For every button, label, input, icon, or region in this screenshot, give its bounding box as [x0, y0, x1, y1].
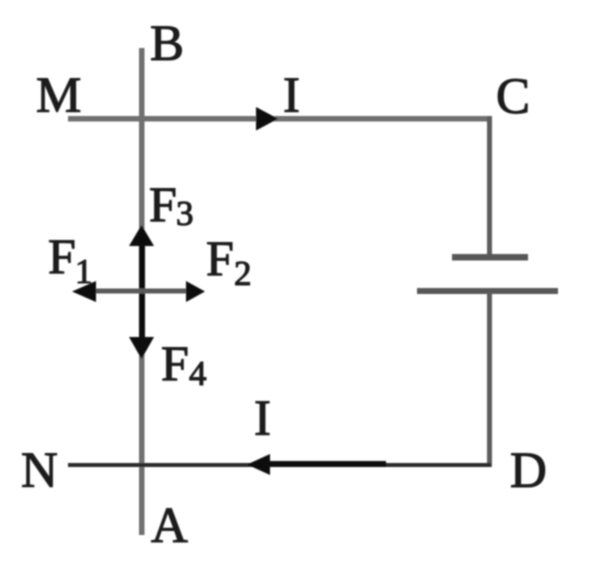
- svg-text:1: 1: [75, 252, 93, 291]
- svg-text:N: N: [21, 443, 58, 499]
- svg-text:F: F: [161, 335, 189, 391]
- node label D: [510, 443, 547, 499]
- node label A: [151, 498, 188, 554]
- battery plate short (top): [452, 254, 528, 261]
- svg-text:C: C: [496, 69, 530, 125]
- current label I (top): [283, 68, 300, 124]
- svg-text:2: 2: [234, 254, 252, 293]
- node label M: [36, 68, 81, 124]
- force arrow F4 (down): [129, 291, 154, 359]
- current label I (bottom): [254, 391, 271, 447]
- force label F3: [149, 176, 194, 233]
- svg-text:B: B: [150, 16, 184, 72]
- svg-text:F: F: [48, 228, 76, 284]
- wire AB (vertical conductor): [139, 48, 145, 535]
- node label B: [150, 16, 184, 72]
- svg-text:D: D: [510, 443, 547, 499]
- svg-text:I: I: [283, 68, 300, 124]
- node label N: [21, 443, 58, 499]
- svg-text:F: F: [149, 176, 177, 232]
- battery plate long (bottom): [417, 288, 558, 294]
- wire C to battery (right upper): [487, 116, 492, 257]
- force arrow F3 (up): [129, 225, 154, 293]
- svg-text:F: F: [206, 230, 234, 286]
- current arrow I (bottom): [247, 454, 386, 475]
- svg-text:I: I: [254, 391, 271, 447]
- svg-text:M: M: [36, 68, 81, 124]
- force label F4: [161, 335, 207, 393]
- svg-text:3: 3: [176, 194, 194, 233]
- force arrow F2 (right): [142, 281, 205, 302]
- force label F1: [48, 228, 93, 291]
- wire M-C (top): [68, 116, 492, 122]
- wire N-D (bottom): [68, 463, 491, 467]
- wire battery to D (right lower): [487, 292, 492, 467]
- force arrow F1 (left): [72, 281, 142, 302]
- svg-text:4: 4: [189, 354, 207, 393]
- svg-text:A: A: [151, 498, 188, 554]
- node label C: [496, 69, 530, 125]
- current arrow I (top): [256, 107, 278, 131]
- force label F2: [206, 230, 252, 293]
